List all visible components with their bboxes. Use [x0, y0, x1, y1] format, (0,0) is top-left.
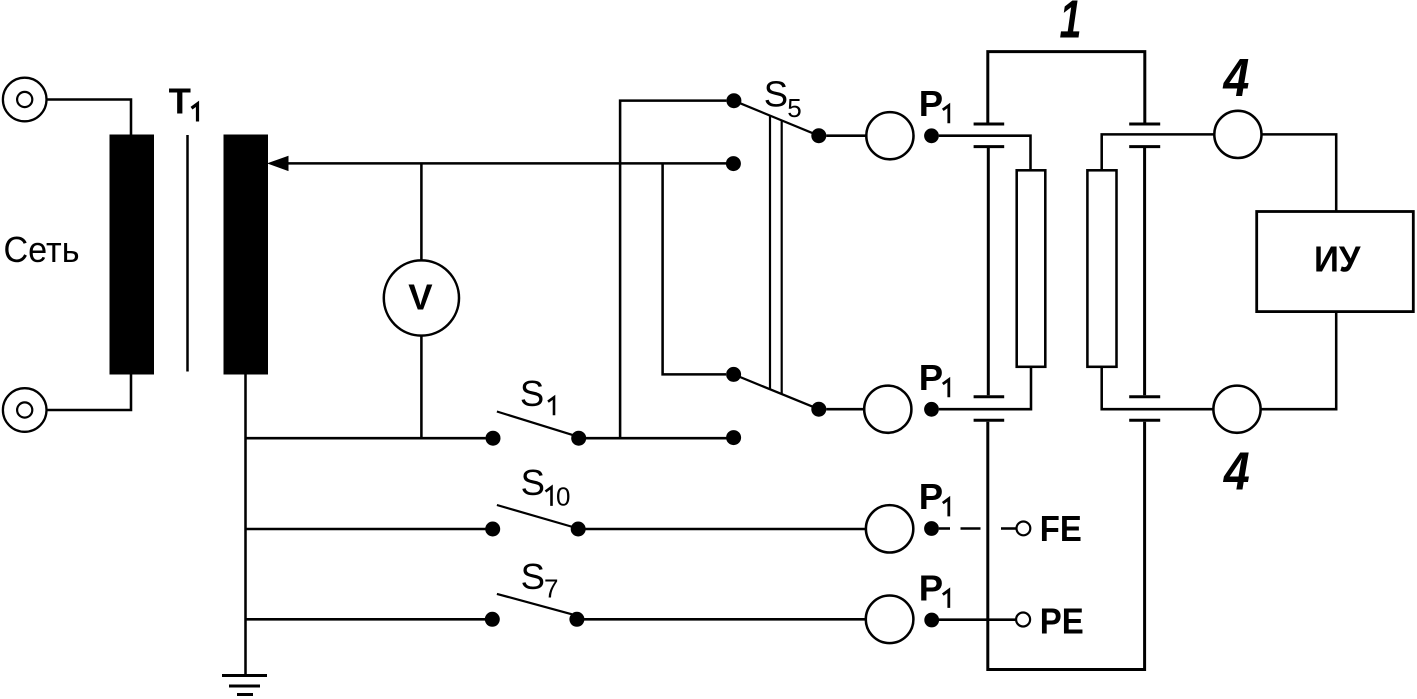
node S7 left contact [485, 612, 500, 627]
wire contact R-top to terminal 4a [1102, 134, 1215, 170]
contact X4 lower bar pair (right bottom) [1129, 397, 1160, 420]
wire P1a to contact L1 and heater [939, 136, 1031, 171]
heater element R2 (right) [1087, 170, 1116, 366]
wire S5 upper feeder (from S1 output net) [620, 101, 726, 439]
terminal 4a circle [1214, 111, 1261, 158]
ground [222, 676, 267, 695]
node S5 lower throw 2 (S1 net) [726, 430, 741, 445]
label P1d [919, 567, 949, 608]
label P1b [919, 357, 949, 398]
terminal PE [1016, 613, 1030, 627]
label P1a [919, 83, 949, 124]
wire voltmeter top [420, 163, 423, 261]
svg-text:S: S [764, 74, 788, 115]
probe P1c circle (FE row) [866, 505, 913, 552]
voltmeter PV1 [384, 260, 459, 335]
wire P1b to contact L2 and heater [939, 367, 1031, 409]
node S10 right contact [571, 522, 586, 537]
node S1 right contact [571, 431, 586, 446]
transformer T1 primary winding [110, 135, 155, 375]
wire S5 upper common to probe P1a [826, 134, 866, 137]
node S5 upper common [811, 128, 826, 143]
svg-text:V: V [408, 277, 433, 318]
label S5 [764, 74, 802, 123]
transformer T1 secondary winding [224, 135, 269, 375]
switch S5 lower blade [734, 374, 819, 409]
wire XS2 to T1 primary bottom [47, 373, 132, 410]
node S5 lower throw 1 [726, 367, 741, 382]
wire S10 output to probe [585, 528, 866, 531]
wire terminal 4a to IU box [1261, 134, 1336, 211]
wire S7 row from trunk [246, 618, 486, 621]
wire S5 lower common to probe P1b [826, 408, 864, 411]
svg-text:7: 7 [544, 574, 558, 604]
tap arrow into T1 secondary [267, 156, 726, 171]
label T1 [169, 80, 198, 121]
svg-text:PE: PE [1040, 600, 1084, 641]
svg-text:P: P [919, 83, 943, 124]
wire terminal 4b to contact R-bottom [1102, 367, 1213, 409]
wire S1 row from trunk [246, 437, 486, 440]
svg-text:T: T [169, 80, 191, 121]
terminal FE [1017, 522, 1031, 536]
svg-text:S: S [521, 556, 545, 597]
label S7 [521, 556, 559, 604]
wire S7 output to probe [584, 618, 866, 621]
wire secondary bottom trunk [244, 374, 247, 676]
node S5 upper throw 1 [726, 93, 741, 108]
svg-text:P: P [919, 567, 943, 608]
switch S5 upper blade [734, 101, 819, 136]
node S7 right contact [569, 612, 584, 627]
appliance 1 top bracket [988, 52, 1145, 123]
node P1a output dot [924, 128, 939, 143]
probe P1b circle [864, 386, 911, 433]
wire P1d to PE terminal [939, 618, 1016, 621]
node S5 lower common [811, 402, 826, 417]
wire P1c to FE terminal (dashed) [939, 527, 1017, 530]
svg-text:4: 4 [1223, 48, 1250, 108]
appliance 1 bottom bracket [988, 422, 1145, 670]
measuring unit IU box [1257, 212, 1414, 312]
switch S10 blade [497, 505, 578, 529]
node P1d output dot [924, 613, 939, 628]
switch S1 blade [497, 412, 579, 437]
contact X3 lower bar pair (left bottom) [974, 397, 1005, 420]
transformer T1 core [186, 135, 189, 372]
svg-text:ИУ: ИУ [1314, 239, 1362, 280]
node S10 left contact [485, 522, 500, 537]
wire S5 lower feeder (from tap net) [663, 163, 726, 374]
wire IU box to terminal 4b [1261, 312, 1336, 410]
svg-text:FE: FE [1040, 508, 1082, 549]
switch S5 mechanical link [770, 116, 782, 395]
terminal XS1 (mains input, top) [3, 78, 47, 122]
svg-text:Сеть: Сеть [4, 229, 80, 270]
wire S10 row from trunk [246, 528, 486, 531]
terminal XS2 (mains input, bottom) [3, 388, 47, 432]
appliance 1 right wall [1143, 148, 1146, 395]
probe P1d circle (PE row) [866, 596, 914, 644]
svg-text:4: 4 [1223, 441, 1250, 501]
svg-text:0: 0 [556, 481, 570, 511]
appliance 1 left wall [987, 148, 990, 395]
node S5 upper throw 2 (tap net) [726, 156, 741, 171]
svg-text:P: P [919, 476, 943, 517]
wire S1 output [586, 437, 734, 440]
heater element R1 (left) [1017, 170, 1046, 366]
svg-text:P: P [919, 357, 943, 398]
svg-text:S: S [520, 373, 544, 414]
switch S7 blade [497, 594, 572, 614]
svg-text:1: 1 [1060, 0, 1082, 50]
probe P1a circle [866, 112, 913, 159]
node S1 left contact [486, 431, 501, 446]
wire XS1 to T1 primary top [47, 100, 132, 137]
svg-text:S: S [521, 462, 545, 503]
label S1 [520, 373, 554, 415]
wire voltmeter bottom [420, 336, 423, 439]
contact X1 upper bar pair (left top) [974, 124, 1005, 147]
label S10 [521, 462, 571, 511]
label P1c [919, 476, 949, 517]
contact X2 upper bar pair (right top) [1129, 124, 1160, 147]
node P1b output dot [924, 402, 939, 417]
node P1c output dot [924, 521, 939, 536]
terminal 4b circle [1213, 386, 1260, 433]
svg-text:5: 5 [787, 93, 801, 123]
